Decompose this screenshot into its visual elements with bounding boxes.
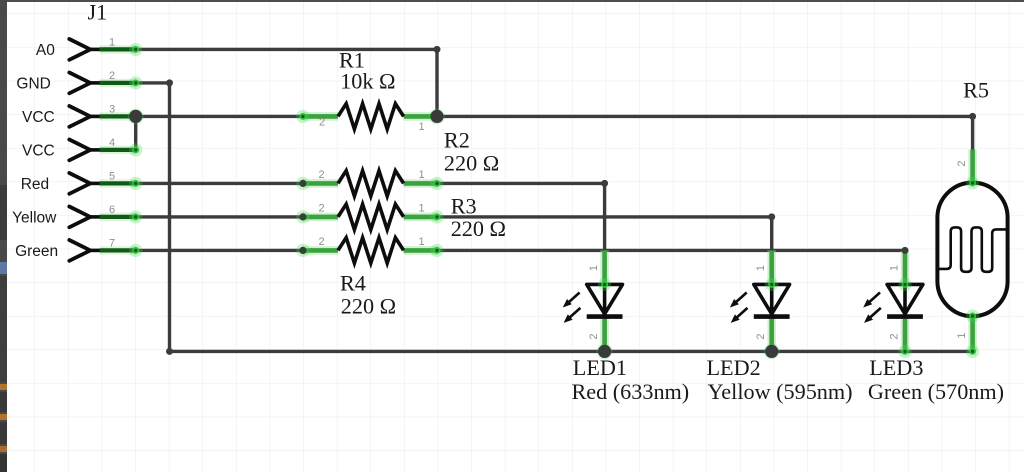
svg-text:Green: Green <box>15 243 58 260</box>
svg-text:220 Ω: 220 Ω <box>451 216 506 241</box>
LED3 labels <box>868 355 1004 404</box>
J1 pin 3 <box>69 103 135 126</box>
svg-text:VCC: VCC <box>22 109 55 126</box>
svg-text:1: 1 <box>418 169 424 181</box>
svg-text:1: 1 <box>418 202 424 214</box>
node R4 pin1 <box>430 244 443 257</box>
J1 pin 2 <box>69 70 135 93</box>
svg-text:1: 1 <box>956 332 968 338</box>
svg-text:R4: R4 <box>340 271 366 296</box>
LED LED2 <box>730 250 790 351</box>
wire VCC3 to R1 <box>136 115 303 118</box>
node LED3 cathode at bus <box>898 345 911 358</box>
svg-text:2: 2 <box>755 333 767 339</box>
photoresistor R5 body <box>937 150 1007 352</box>
svg-text:LED3: LED3 <box>869 355 923 380</box>
J1 pin 5 <box>69 170 135 193</box>
top window edge <box>0 0 1024 2</box>
svg-text:LED2: LED2 <box>707 355 761 380</box>
resistor R4 labels <box>340 271 396 319</box>
svg-text:3: 3 <box>109 103 115 115</box>
svg-text:VCC: VCC <box>22 143 55 160</box>
node LED2 branch corner <box>768 213 775 220</box>
node R5 pin2 top <box>966 176 979 189</box>
LED2 labels <box>707 355 853 404</box>
J1 pin end markers <box>129 43 142 257</box>
svg-text:Red (633nm): Red (633nm) <box>572 379 690 404</box>
connector J1 symbol <box>69 36 135 260</box>
wire Green to R4 <box>136 249 303 252</box>
svg-text:4: 4 <box>109 137 115 149</box>
svg-text:5: 5 <box>109 170 115 182</box>
LED1 labels <box>572 355 690 404</box>
wire ground bus <box>170 350 973 353</box>
svg-text:LED1: LED1 <box>573 355 627 380</box>
node LED1 branch corner <box>601 180 608 187</box>
wire Red to R2 <box>136 182 303 185</box>
junction LED1 cathode bus <box>597 343 613 359</box>
svg-text:A0: A0 <box>36 42 55 59</box>
node LED2 anode <box>765 278 778 291</box>
svg-text:R2: R2 <box>444 128 470 153</box>
svg-text:R5: R5 <box>963 77 989 102</box>
svg-text:J1: J1 <box>88 0 108 25</box>
junction R1/A0/R5 net <box>429 108 445 124</box>
node R3 pin1 <box>430 210 443 223</box>
node LED1 anode <box>598 278 611 291</box>
node R2 pin2 <box>296 177 309 190</box>
wire GND horizontal <box>136 81 170 84</box>
svg-text:GND: GND <box>16 76 50 93</box>
resistor R3 <box>303 204 437 229</box>
node R5 pin1 bottom <box>966 309 979 322</box>
junction LED2 cathode bus <box>764 343 780 359</box>
svg-text:2: 2 <box>109 70 115 82</box>
svg-text:Red: Red <box>21 176 49 193</box>
J1 pin 7 <box>69 237 135 260</box>
resistor pin number labels <box>318 117 424 248</box>
node bus left corner <box>166 348 173 355</box>
svg-text:7: 7 <box>109 237 115 249</box>
svg-text:2: 2 <box>318 236 324 248</box>
wire R4 to LED3 horizontal <box>437 249 905 252</box>
svg-text:Yellow: Yellow <box>12 210 57 227</box>
node R1 pin2 <box>296 110 309 123</box>
LED LED3 <box>863 250 923 351</box>
junction VCC pins 3-4 <box>128 108 144 124</box>
node A0 corner <box>434 46 441 53</box>
svg-text:2: 2 <box>889 333 901 339</box>
J1 pin 1 <box>69 36 135 59</box>
svg-text:1: 1 <box>755 265 767 271</box>
node R3 pin2 <box>296 210 309 223</box>
svg-text:1: 1 <box>109 36 115 48</box>
svg-text:220 Ω: 220 Ω <box>341 294 396 319</box>
svg-text:2: 2 <box>588 333 600 339</box>
J1 pin 4 <box>69 137 135 160</box>
node LED3 branch corner <box>902 247 909 254</box>
wire R2 to LED1 horizontal <box>437 182 605 185</box>
svg-text:1: 1 <box>889 265 901 271</box>
wire GND vertical <box>168 83 171 352</box>
wire VCC3 to VCC4 vertical <box>134 116 137 149</box>
node LED3 anode <box>898 278 911 291</box>
wire Yellow to R3 <box>136 215 303 218</box>
svg-text:6: 6 <box>109 204 115 216</box>
node R2 pin1 <box>430 177 443 190</box>
svg-text:1: 1 <box>418 236 424 248</box>
svg-text:1: 1 <box>588 265 600 271</box>
wire R3 to LED2 horizontal <box>437 215 772 218</box>
left panel strip <box>0 0 7 472</box>
svg-text:220 Ω: 220 Ω <box>444 151 499 176</box>
resistor R3 labels <box>451 194 506 242</box>
svg-text:10k Ω: 10k Ω <box>340 68 395 93</box>
resistor R2 labels <box>444 128 499 176</box>
node R4 pin2 <box>296 244 309 257</box>
svg-text:2: 2 <box>319 117 325 129</box>
svg-text:R3: R3 <box>451 194 477 219</box>
svg-text:Yellow (595nm): Yellow (595nm) <box>708 379 853 404</box>
wire LED1 vertical <box>603 183 606 250</box>
wire R5 vertical top <box>971 116 974 149</box>
resistor R4 <box>303 238 437 263</box>
node R5 branch corner <box>969 113 976 120</box>
svg-text:1: 1 <box>418 121 424 133</box>
svg-text:2: 2 <box>956 160 968 166</box>
wire A0 horizontal <box>136 48 437 51</box>
resistor R1 labels <box>339 48 396 94</box>
LED LED1 <box>563 250 623 351</box>
node GND corner <box>166 79 173 86</box>
wire LED2 vertical <box>770 217 773 251</box>
svg-text:2: 2 <box>318 169 324 181</box>
svg-text:Green (570nm): Green (570nm) <box>868 379 1004 404</box>
wire A0 vertical down to R1 <box>435 49 438 116</box>
wire R1 to R5 top <box>437 115 973 118</box>
resistor R2 <box>303 171 437 196</box>
svg-text:2: 2 <box>318 202 324 214</box>
node R5 bus end <box>966 345 979 358</box>
J1 pin 6 <box>69 204 135 227</box>
resistor R1 <box>303 104 437 129</box>
